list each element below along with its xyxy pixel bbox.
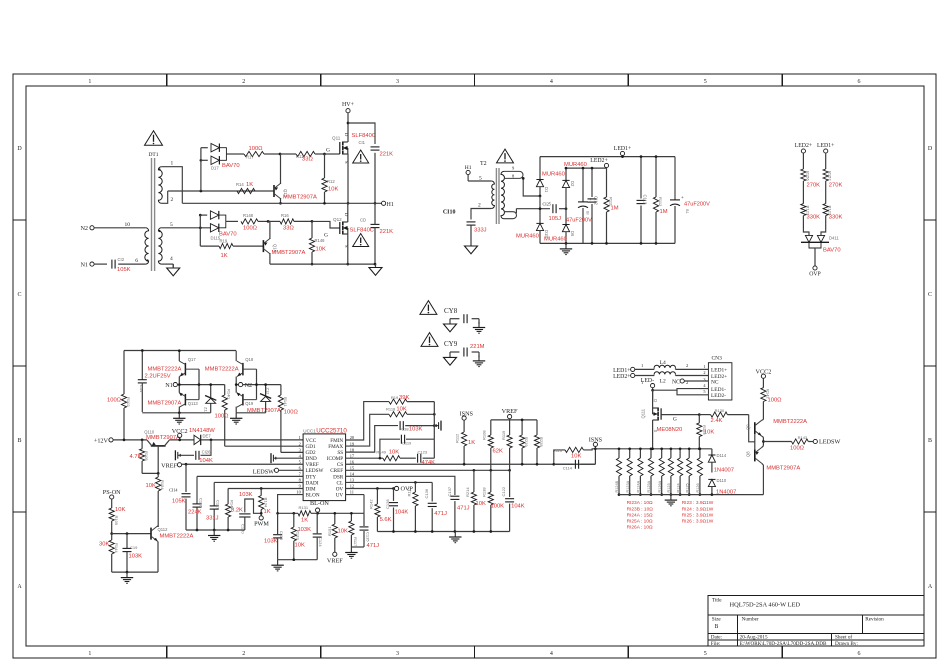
svg-text:R138: R138 [482,487,487,497]
resistor R123 330K [801,204,820,229]
junction R118 at gnd bus [433,413,436,416]
resistor R146 10K [309,221,326,264]
svg-text:471J: 471J [457,506,470,512]
svg-text:4: 4 [550,651,553,657]
svg-text:CD: CD [360,218,366,223]
node LED- terminal [641,378,655,388]
junction HV+ branch [347,122,350,125]
node +12V terminal [94,437,113,444]
svg-text:E:\WORK\L70D-2SA\L70DD-2SA.DDB: E:\WORK\L70D-2SA\L70DD-2SA.DDB [740,641,827,647]
resistor R219 [520,420,530,464]
capacitor CI1 221K [358,140,393,158]
ground below R117 [345,547,357,558]
svg-text:1N4007: 1N4007 [714,468,734,474]
wire DIM row [228,487,303,489]
svg-text:R19: R19 [220,239,228,244]
svg-text:10K: 10K [476,501,486,507]
svg-text:R124A: R124A [637,480,641,492]
svg-text:R12: R12 [327,179,335,184]
wire DADI row [214,481,303,483]
junction R123A top [628,447,631,450]
warning triangle near Q11 [353,150,369,163]
wire GD1 row [225,445,303,447]
junction D2 at rail2 [565,167,568,170]
svg-text:R14: R14 [236,182,244,187]
warning triangle above DT1 [145,131,163,158]
svg-text:C135: C135 [366,532,371,542]
resistor R148 100ohm [241,213,268,232]
junction C14 top [141,349,144,352]
junction at D17 anodes [200,159,203,192]
dual diode D411 BAV70 [801,235,841,253]
svg-text:SLF840C: SLF840C [352,133,377,139]
junction D1 anode [539,195,542,198]
svg-text:221K: 221K [380,229,394,235]
svg-text:2.4K: 2.4K [711,418,723,424]
svg-text:L2: L2 [660,379,666,385]
capacitor C137 471J [447,486,470,531]
ground below CI10 [465,246,478,254]
node H1 rail with terminal [182,201,394,208]
wire Q113 emitter to N1 row [178,385,180,393]
resistor R126A sense [658,449,664,495]
wire R16 to Q12 gate [312,221,340,238]
junction R108 at CREF row [489,469,492,472]
title block [708,595,924,646]
svg-text:NC: NC [711,380,719,386]
resistor R110 10K [553,447,596,464]
svg-text:C119: C119 [402,441,412,446]
capacitor C135 471J [360,495,380,549]
svg-text:D1: D1 [544,187,549,193]
svg-text:R123: R123 [667,483,671,492]
svg-text:HV+: HV+ [342,102,355,108]
junction R147 bottom [227,529,230,532]
power node HV+ [342,102,355,113]
transformer T2 label [480,161,487,167]
rail ISNS row [619,448,712,450]
svg-text:+12V: +12V [94,437,109,444]
svg-text:R151: R151 [327,526,332,536]
junction R112 at rail1 [655,155,658,158]
svg-text:104K: 104K [395,510,409,516]
junction D115 anode column [199,214,202,229]
wire emitter to R143 [763,441,791,443]
resistor R102 100ohm [107,351,131,440]
svg-text:Number: Number [742,617,759,623]
junction R110 at CS row [552,463,555,466]
capacitor C122 104K [501,470,525,531]
svg-text:LEDSW: LEDSW [253,468,274,475]
svg-text:R141: R141 [283,397,288,407]
wire FMAX to R118 [346,414,389,446]
junction R124 top [679,447,682,450]
T2 pin 9 loop [504,165,523,178]
svg-text:R102: R102 [126,397,131,407]
svg-text:H1: H1 [387,202,394,208]
capacitor C114 [554,460,596,471]
svg-text:Sheet of: Sheet of [835,633,852,640]
bus BLON row [278,512,364,514]
svg-text:47uF200V: 47uF200V [566,218,592,224]
svg-text:Date:: Date: [711,634,723,640]
resistor R19 1K [200,239,263,260]
junction R148/R16/Q14 emitter [267,220,270,223]
node LED2+ terminal (OVP side) [795,143,812,169]
zener Z12 [260,383,271,413]
svg-text:10K: 10K [328,187,338,193]
wire CL row [346,481,433,483]
wire Q111 gate to R130 [661,414,699,416]
svg-text:MUR460: MUR460 [544,237,567,243]
resistor R214 10K [465,470,486,531]
svg-text:3: 3 [396,79,399,85]
wire Q17 emitter to N1 row [178,377,180,385]
junction R214 at CREF row [473,469,476,472]
svg-text:105J: 105J [549,216,562,222]
svg-text:D: D [928,146,933,152]
svg-text:MMBT2907A: MMBT2907A [766,465,800,471]
svg-text:R149: R149 [376,450,386,455]
junction C136 at rail [431,530,434,533]
junction R125A bottom [650,493,653,496]
svg-text:1K: 1K [264,509,271,515]
svg-text:UV: UV [336,492,344,498]
ground at sense rail [665,495,677,506]
junction R123 bottom [670,493,673,496]
svg-text:Drawn By:: Drawn By: [835,641,858,647]
wire BLON pin to bus [278,495,304,514]
svg-text:Q112: Q112 [158,527,169,532]
svg-text:R144: R144 [114,543,119,553]
resistor R154 10K [146,473,166,527]
svg-text:LED1+: LED1+ [711,368,727,374]
wire LEDSW to pin 6 [279,469,304,471]
svg-text:D2: D2 [570,181,575,187]
svg-text:10: 10 [125,222,131,228]
rail left low [186,529,245,531]
rail right ground [377,531,509,533]
junction R129 at gate wire [698,413,701,416]
warning triangle CY9 [421,333,438,347]
wire Q12 drain to H1 rail [347,203,349,222]
svg-text:Title: Title [712,598,722,604]
svg-text:C123: C123 [418,450,428,455]
svg-text:47uF200V: 47uF200V [684,202,710,208]
svg-text:RI25 : 3.9Ω1W: RI25 : 3.9Ω1W [682,512,714,518]
capacitor C128 104K [385,488,408,531]
wire Q17 collector to rail [178,349,181,361]
resistor R126 sense [696,449,702,495]
svg-text:10K: 10K [389,450,399,456]
svg-text:BI: BI [586,211,590,215]
wire Q13 collector to H1 rail [280,198,282,203]
svg-text:R124B: R124B [615,480,619,492]
junction R146 at rail [311,263,314,266]
node LED1+ terminal [614,146,631,157]
svg-text:2.2UF25V: 2.2UF25V [145,374,171,380]
svg-text:C128: C128 [385,499,390,509]
junction R126 bottom [699,493,702,496]
wire Q19 collector to rail [235,407,237,413]
node N1 terminal [80,261,94,268]
transformer T2 core [496,168,499,224]
svg-text:6: 6 [858,79,861,85]
resistor R151 10K [327,513,348,552]
capacitor C19 103K [123,534,143,573]
resistor R133 10K [291,513,305,559]
svg-text:LED2+: LED2+ [795,143,812,149]
junction C19 top [126,532,129,535]
resistor R111 1M [604,168,619,243]
wire R130 to base bar [749,415,755,442]
transistor Q9 MMBT2222A [746,419,808,436]
rail BLON ground [278,559,318,561]
junction R102 at +12V row [123,439,126,442]
wire D115 anode column [199,215,201,246]
svg-text:VREF: VREF [161,462,177,469]
svg-text:LED1+: LED1+ [613,368,630,374]
MOSFET Q12 SLF840C [333,213,374,248]
svg-text:20-Aug-2015: 20-Aug-2015 [740,634,768,640]
resistor R134 1K [259,488,271,515]
svg-text:10K: 10K [571,454,581,460]
svg-text:105K: 105K [117,267,131,273]
wire Q112 collector up [157,526,159,527]
wire C135 bottom to ground [351,546,364,548]
warning triangle near T2 [497,149,514,163]
svg-text:100Ω: 100Ω [215,414,230,420]
svg-text:MMBT2222A: MMBT2222A [160,534,194,540]
svg-text:CI26: CI26 [202,449,212,454]
svg-text:D411: D411 [829,236,839,241]
capacitor CI2 105K [112,257,131,273]
junction R115 at CL row [414,481,417,484]
resistor R149 10K [376,450,415,461]
wire R123 to D411 anode [803,229,809,235]
svg-text:R131: R131 [299,505,309,510]
wire DT1 pin 2 to base row [161,191,167,203]
svg-text:R157: R157 [828,171,833,181]
wire T2 center node to CI25 [516,208,550,210]
junction R117 at bus [350,512,353,515]
wire emitter join Q9 Q8 [762,436,764,447]
resistor R109 10K [109,499,125,533]
node VREF terminal below R151 [327,552,343,564]
svg-text:CY9: CY9 [444,340,458,348]
svg-text:D: D [17,146,22,152]
wire N1 row to R140 [177,383,224,386]
svg-text:4: 4 [170,256,173,262]
capacitor CY8 [444,307,479,324]
resistor R119 [501,420,512,470]
svg-text:D110: D110 [717,478,727,483]
DT1 pin 10 label [125,222,131,228]
svg-text:DT1: DT1 [148,152,158,158]
wire VREF row to pin 5 [182,463,304,465]
svg-text:SLF840C: SLF840C [350,228,375,234]
svg-text:BAV70: BAV70 [222,163,240,169]
svg-text:100Ω: 100Ω [284,410,299,416]
svg-text:Q110: Q110 [144,429,155,434]
svg-text:Q11: Q11 [332,136,341,141]
wire D17 anode column [200,148,202,191]
svg-text:RI23B : 10Ω: RI23B : 10Ω [627,506,654,512]
wire DT1 pin 4 to ground [161,264,173,267]
svg-text:BAV70: BAV70 [823,248,841,254]
svg-text:DE7: DE7 [203,433,212,438]
svg-text:471J: 471J [367,543,380,549]
junction C113 bottom [640,242,643,245]
svg-text:104K: 104K [511,504,525,510]
ground sideways at DND pin [271,453,303,463]
junction R133 bottom [292,558,295,561]
svg-text:30K: 30K [99,542,109,548]
svg-text:R117: R117 [353,537,358,547]
wire Q18 emitter to N2 row [235,377,237,385]
resistor R19 39K [389,395,434,404]
wire Q11 source to H1 rail [347,154,349,203]
resistor R142 5.6K [369,488,392,531]
capacitor CY9 221M [444,340,485,357]
wire Q9 collector to R142 [762,419,764,422]
svg-text:CI12: CI12 [594,196,599,206]
svg-text:5: 5 [704,79,707,85]
svg-text:10K: 10K [146,483,156,489]
wire DE7 to VCC pin [201,439,303,441]
transistor Q13 MMBT2907A [274,183,317,201]
svg-text:103K: 103K [129,554,143,560]
svg-text:1: 1 [88,651,91,657]
svg-text:R17: R17 [246,155,254,160]
warning triangle near Q12 [353,234,369,247]
diode D114 1N4007 [708,449,734,474]
wire CI25 to column B [559,208,566,210]
capacitor BI 47uF200V (left) [566,168,592,243]
node PS-ON terminal [103,489,121,499]
transistor Q18 MMBT2222A [205,357,257,377]
node PWM terminal [254,516,269,528]
svg-text:2: 2 [686,363,688,368]
value table left [627,500,654,530]
node NC terminal [672,379,708,385]
svg-text:UCC1: UCC1 [303,429,316,434]
svg-text:103K: 103K [409,427,423,433]
capacitor CD 221K [360,218,393,236]
resistor R105 4.7K [130,439,150,474]
svg-text:CI25: CI25 [543,202,551,207]
wire D411 common to OVP [814,248,816,266]
junction C119 branch at ICOMP [379,457,382,460]
ground at BLON rail [271,560,283,571]
junction CI12 bottom [591,242,594,245]
svg-text:G: G [324,233,328,239]
junction R126 top [699,447,702,450]
svg-text:CI14: CI14 [169,488,178,493]
svg-text:100Ω: 100Ω [243,226,258,232]
node N2 terminal [80,225,94,232]
svg-text:RI26 : 3.9Ω1W: RI26 : 3.9Ω1W [682,519,714,525]
resistor R157 270K [823,169,842,204]
junction R115 at rail [414,530,417,533]
wire Q14 emitter up to junction [268,221,270,239]
junction gate node Q12 [311,220,314,223]
svg-text:2: 2 [242,79,245,85]
svg-text:R109: R109 [114,516,119,526]
svg-text:Q8: Q8 [746,451,751,457]
svg-text:CY8: CY8 [444,307,458,315]
node ISNS terminal (right) [589,437,603,465]
svg-text:MMBT2222A: MMBT2222A [205,367,239,373]
inductor L2 [635,372,709,385]
svg-text:R228: R228 [539,437,544,447]
svg-text:221M: 221M [470,344,485,350]
svg-text:B: B [17,438,21,444]
svg-text:Q17: Q17 [188,357,197,362]
node LED2+ terminal [590,158,608,168]
resistor R156 270K [801,169,820,204]
wire CREF row [346,469,510,471]
svg-text:R126A: R126A [658,480,662,492]
svg-text:VREF: VREF [327,558,343,565]
junction CI26 at VCC row [210,439,213,442]
junction CI14 at VREF row [185,463,188,466]
svg-text:2: 2 [242,651,245,657]
node N1 terminal (buffer) [165,382,177,389]
svg-text:L4: L4 [660,360,666,366]
capacitor C1 47uF200V (right) [670,157,710,244]
transformer DT1 core [152,158,155,271]
capacitor C123 474K [418,439,436,466]
junction C117 bottom [213,529,216,532]
wire R13 to Q11 gate [325,148,340,155]
wire N2 row to R141 [235,383,281,386]
svg-text:10K: 10K [295,543,305,549]
svg-text:LED2+: LED2+ [613,374,630,380]
svg-text:Q18: Q18 [245,357,254,362]
transistor Q112 MMBT2222A [151,526,193,542]
svg-text:G: G [326,148,330,154]
svg-text:RI23A : 10Ω: RI23A : 10Ω [627,500,653,506]
svg-text:B: B [715,624,719,630]
svg-text:10K: 10K [316,247,326,253]
svg-text:MMBT2907A: MMBT2907A [283,195,317,201]
svg-text:C120: C120 [241,524,246,534]
wire Q14 collector to bottom rail [269,253,271,264]
svg-text:N1: N1 [165,382,173,389]
resistor R125 sense [685,449,691,495]
junction R12 at gate node [323,202,326,205]
svg-text:C117: C117 [216,500,221,510]
bottom rail of output section [540,242,675,244]
svg-text:270K: 270K [807,183,821,189]
node VCC2 terminal (driver) [755,369,771,379]
svg-text:T2: T2 [480,161,487,167]
svg-text:R118: R118 [386,406,396,411]
ground at right rail [449,532,461,543]
transistor Q14 MMBT2907A [263,238,305,256]
junction R219 at rail [521,419,524,422]
transformer T2 secondary winding [501,171,504,218]
node ISNS terminal (left) [460,410,474,420]
svg-text:C116: C116 [199,498,204,508]
junction R219 at CS row [521,463,524,466]
svg-text:PWM: PWM [254,521,269,528]
svg-text:D17: D17 [211,166,219,171]
wire FMIN to R19 [346,402,389,440]
DT1 pin 6 label [135,258,138,264]
ground at PS-ON rail [121,572,133,583]
